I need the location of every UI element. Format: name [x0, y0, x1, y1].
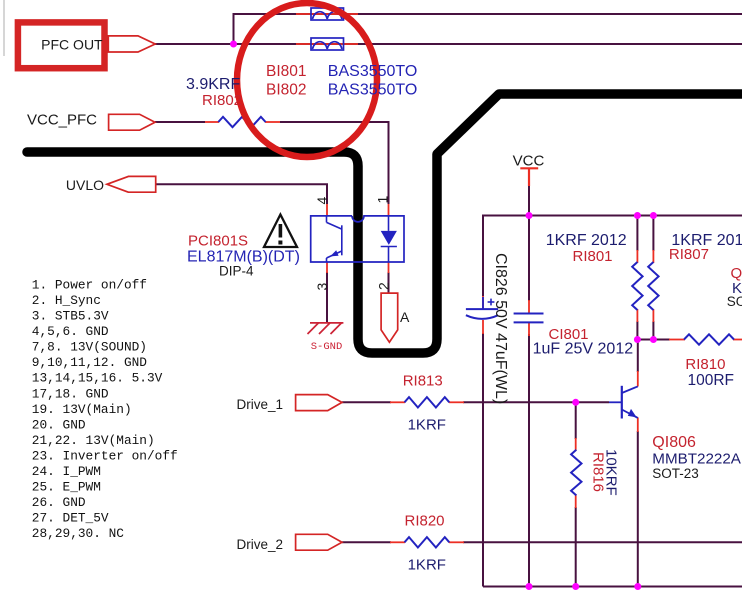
pin stub opto pin3: [326, 262, 328, 273]
pin stubs RI801: [636, 250, 638, 263]
svg-text:2. H_Sync: 2. H_Sync: [32, 293, 101, 308]
wire left branch lower (CI826 to bottom rail): [482, 333, 484, 587]
resistor RI813: [405, 397, 450, 407]
svg-text:3: 3: [314, 283, 330, 291]
svg-text:100RF: 100RF: [688, 372, 735, 389]
svg-text:RI807: RI807: [669, 246, 709, 263]
pin stubs RI813: [390, 401, 405, 403]
svg-text:2: 2: [376, 282, 392, 290]
transistor QI806: [609, 386, 638, 419]
PFC OUT connector: [108, 36, 155, 52]
junction node RI807 top: [650, 212, 657, 219]
resistor RI820: [405, 537, 450, 547]
op-amp U1 optocoupler PCI801S body: [311, 216, 404, 262]
svg-text:BI802: BI802: [266, 81, 307, 98]
ground S-GND: [308, 323, 344, 334]
PFC OUT port box: [18, 22, 105, 68]
wire VCC_PFC to RI802: [155, 121, 205, 123]
svg-text:3.9KRF: 3.9KRF: [186, 76, 240, 93]
svg-text:Drive_2: Drive_2: [236, 537, 283, 552]
svg-text:24. I_PWM: 24. I_PWM: [32, 464, 101, 479]
pin stubs QI806 collector/emitter: [637, 371, 639, 387]
pin stub opto pin2: [388, 262, 390, 273]
wire RI816 upper stub: [575, 402, 577, 439]
svg-text:28,29,30. NC: 28,29,30. NC: [32, 526, 124, 541]
resistor RI807: [648, 262, 658, 310]
svg-text:1: 1: [375, 196, 391, 204]
capacitor CI826: [466, 297, 498, 319]
svg-text:1KRF: 1KRF: [408, 416, 446, 433]
wire RI816 lower stub: [575, 507, 577, 587]
wire RI807 branch stubs: [652, 216, 654, 252]
pin stubs RI807: [652, 250, 654, 263]
svg-text:RI820: RI820: [405, 513, 445, 530]
svg-text:RI801: RI801: [573, 248, 613, 265]
svg-text:UVLO: UVLO: [66, 177, 104, 193]
svg-text:BI801: BI801: [266, 63, 307, 80]
svg-text:RI802: RI802: [202, 92, 242, 109]
wire opto pin3 to S-GND: [326, 272, 328, 323]
resistor RI802: [218, 117, 265, 127]
capacitor CI801: [514, 314, 544, 323]
wire left branch upper (to CI826): [482, 215, 484, 297]
connector VCC_PFC: [109, 114, 155, 130]
svg-text:BAS3550TO: BAS3550TO: [328, 63, 418, 80]
connector Drive_2: [296, 534, 342, 550]
svg-text:3. STB5.3V: 3. STB5.3V: [32, 309, 109, 324]
wire opto pin2 to port A: [388, 272, 390, 293]
wire UVLO to opto pin4: [156, 184, 327, 204]
junction node RI801 top: [634, 212, 641, 219]
svg-text:BAS3550TO: BAS3550TO: [328, 81, 418, 98]
resistor RI810: [684, 334, 734, 344]
svg-text:4,5,6. GND: 4,5,6. GND: [32, 324, 109, 339]
wire Drive_1 base net: [342, 401, 391, 403]
wire CI801 branch upper: [528, 216, 530, 302]
svg-text:SOT-23: SOT-23: [652, 466, 699, 481]
junction node bottom rail CI801: [526, 583, 533, 590]
wire RI802 to opto pin1: [280, 122, 389, 204]
svg-text:DIP-4: DIP-4: [219, 263, 254, 278]
pin stubs CI801: [528, 300, 530, 313]
resistor RI801: [632, 262, 642, 310]
svg-text:1uF 25V 2012: 1uF 25V 2012: [533, 341, 634, 358]
svg-text:23. Inverter on/off: 23. Inverter on/off: [32, 448, 178, 463]
svg-text:13,14,15,16. 5.3V: 13,14,15,16. 5.3V: [32, 371, 163, 386]
wire VCC rail: [483, 215, 742, 217]
wire bottom rail: [483, 586, 742, 588]
svg-text:S-GND: S-GND: [311, 341, 343, 353]
junction node VCC junction: [526, 212, 533, 219]
pin stub opto pin4: [326, 204, 328, 216]
svg-text:RI810: RI810: [685, 356, 725, 373]
pin stubs BI802: [296, 43, 358, 45]
warning triangle: [264, 215, 297, 248]
svg-text:1KRF: 1KRF: [408, 556, 446, 573]
wire mid rail to RI810: [637, 339, 670, 341]
svg-text:25. E_PWM: 25. E_PWM: [32, 480, 101, 495]
wire QI806 collector: [637, 340, 639, 373]
svg-text:10KRF: 10KRF: [603, 449, 620, 496]
svg-text:RI813: RI813: [403, 373, 443, 390]
wire CI801 branch lower: [528, 334, 530, 587]
thick black highlighted trace: [27, 94, 742, 353]
connector UVLO: [107, 176, 156, 192]
pin stubs RI802: [205, 121, 219, 123]
connector Drive_1: [296, 395, 342, 411]
wire PFC OUT net main: [155, 43, 742, 45]
wire RI801 branch stubs: [636, 216, 638, 252]
svg-text:Drive_1: Drive_1: [236, 397, 283, 412]
pin stub opto pin1: [388, 204, 390, 216]
svg-text:SOT: SOT: [727, 294, 742, 309]
wire PFC OUT net top branch: [234, 14, 742, 44]
svg-text:9,10,11,12. GND: 9,10,11,12. GND: [32, 355, 148, 370]
svg-text:PCI801S: PCI801S: [188, 233, 248, 250]
pin stubs RI816: [575, 438, 577, 451]
svg-text:CI826 50V 47uF(WL): CI826 50V 47uF(WL): [492, 253, 509, 404]
svg-text:A: A: [400, 309, 410, 325]
node A port: [381, 293, 398, 342]
wire VCC stem: [528, 184, 530, 216]
wire Drive_2 net: [342, 541, 391, 543]
svg-text:VCC: VCC: [513, 153, 545, 170]
svg-text:MMBT2222A: MMBT2222A: [652, 451, 741, 468]
ferrite bead BI801: [311, 8, 344, 20]
junction node RI801 bottom: [634, 336, 641, 343]
svg-text:17,18. GND: 17,18. GND: [32, 386, 109, 401]
svg-text:4: 4: [314, 197, 330, 205]
ferrite bead BI802: [311, 38, 344, 50]
pin stubs RI820: [390, 541, 405, 543]
svg-text:26. GND: 26. GND: [32, 495, 86, 510]
junction node RI807 bottom: [650, 336, 657, 343]
junction node PFC OUT: [230, 41, 237, 48]
svg-text:7,8. 13V(SOUND): 7,8. 13V(SOUND): [32, 340, 147, 355]
svg-text:PFC OUT: PFC OUT: [41, 36, 103, 52]
window edge gray line: [3, 0, 5, 56]
optocoupler phototransistor: [327, 216, 342, 262]
resistor RI816: [571, 450, 581, 496]
svg-text:VCC_PFC: VCC_PFC: [27, 112, 97, 129]
junction node base junction: [572, 399, 579, 406]
pin stubs CI826: [482, 296, 484, 309]
wire QI806 emitter to bottom rail: [637, 431, 639, 587]
svg-text:27. DET_5V: 27. DET_5V: [32, 511, 109, 526]
power symbol VCC: [520, 168, 538, 186]
svg-text:1KRF 2012: 1KRF 2012: [546, 232, 627, 249]
junction node bottom rail RI816: [572, 583, 579, 590]
optocoupler LED: [381, 216, 397, 262]
svg-text:1. Power on/off: 1. Power on/off: [32, 278, 147, 293]
pin stubs RI810: [669, 339, 685, 341]
junction node bottom rail emitter: [634, 583, 641, 590]
svg-text:20. GND: 20. GND: [32, 417, 86, 432]
svg-text:21,22. 13V(Main): 21,22. 13V(Main): [32, 433, 155, 448]
red highlight ellipse: [237, 3, 377, 157]
pin stubs BI801: [296, 13, 358, 15]
svg-text:QI806: QI806: [652, 434, 696, 451]
svg-text:19. 13V(Main): 19. 13V(Main): [32, 402, 132, 417]
